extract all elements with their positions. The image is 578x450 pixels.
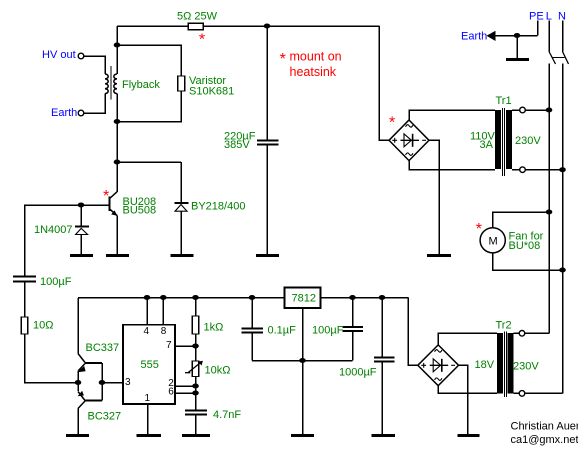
bridge1 marks [392,125,426,156]
wire PE drop [537,21,539,36]
wire fan bottom [493,253,563,270]
transformer Tr1 core [502,108,504,176]
svg-text:BU*08: BU*08 [509,240,541,252]
terminal Tr2 bottom [519,391,525,397]
wire fan top [493,212,549,228]
wire PE to earth arrow [494,35,538,37]
ground 1N4007 [70,254,93,257]
wire bridge2 minus to ground [459,365,468,435]
svg-text:18V: 18V [475,359,495,371]
svg-text:4: 4 [144,326,150,337]
wire BU208 emitter to ground [116,216,118,256]
wire varistor bottom branch [117,91,181,122]
wire Tr2 230V bottom lead [514,392,520,394]
node 100uF rail junction [349,295,356,300]
svg-text:*: * [199,32,205,49]
wire Tr1 bottom to N [525,169,563,171]
wire 555 pin 7 [175,345,196,347]
svg-text:PE: PE [529,11,544,23]
wire 555 pin 2 [175,385,196,387]
wire L lower [548,64,550,334]
wire Tr2 230V top lead [514,332,520,334]
bridge rectifier B1 diamond [389,120,429,161]
svg-text:100µF: 100µF [312,325,344,337]
svg-text:5Ω 25W: 5Ω 25W [177,11,218,23]
node fan N junction [559,268,566,273]
wire bridge1 minus to ground [429,140,439,255]
transformer flyback core [110,66,112,100]
node base junction [78,203,85,208]
svg-text:1N4007: 1N4007 [34,224,73,236]
node driver emitter junction [75,380,82,385]
wire flyback primary top lead [116,26,118,74]
resistor 5R 25W [188,23,203,29]
svg-text:10kΩ: 10kΩ [205,365,231,377]
wire BC337 collector [77,298,79,354]
svg-text:Earth: Earth [51,107,77,119]
node pin8 rail junction [160,295,167,300]
svg-text:230V: 230V [515,135,541,147]
ground BU208 emitter [106,254,129,257]
switch link bar [552,57,565,59]
terminal HV out [78,53,84,59]
transistor Q1 collector diagonal [110,192,117,199]
ground BY218 [171,254,194,257]
switch blade L [549,52,556,65]
capacitor 0.1uF [242,327,264,329]
svg-text:385V: 385V [224,139,250,151]
wire rail to bridge2 [408,298,418,366]
wire base node to 100uF [25,205,82,276]
earth arrow [487,31,496,41]
svg-text:0.1µF: 0.1µF [268,325,297,337]
svg-text:ca1@gmx.net: ca1@gmx.net [511,434,578,446]
wire 10R to emitter node [25,334,79,383]
svg-text:Tr2: Tr2 [496,320,512,332]
wire 555 pin 8 [162,298,164,325]
ground BC327 [66,434,89,437]
svg-text:M: M [489,236,498,248]
svg-text:8: 8 [161,326,167,337]
wire varistor top branch [117,45,181,76]
svg-text:*: * [476,221,482,238]
wire Tr2 top to L [525,332,550,334]
diode BY218/400 [180,162,182,203]
node 1k rail junction [192,295,199,300]
node PE junction [514,33,521,38]
terminal Tr2 top [519,331,525,337]
capacitor 4.7nF [185,409,207,411]
svg-text:1kΩ: 1kΩ [204,322,224,334]
resistor 10R [21,317,28,334]
capacitor 220uF 385V [257,139,279,141]
potentiometer 10k [192,361,199,377]
wire top supply rail [117,25,379,27]
wire N lower [562,64,564,394]
bridge rectifier B2 diamond [418,345,459,386]
svg-text:Flyback: Flyback [122,79,160,91]
node 220uF top junction [264,24,271,29]
svg-text:3: 3 [125,377,131,388]
ground bridge1 [427,254,451,257]
transistor Q1 BU208 base bar [109,197,111,212]
wire 0.1uF top [251,298,253,328]
ground 555 pin1 [137,434,162,437]
wire 555 pin 6 [175,392,196,394]
wire 1k to pot [195,334,197,361]
diode 1N4007 [80,205,82,227]
node Tr1 N junction [559,167,566,172]
wire Tr1 230V bottom lead [512,169,520,171]
svg-text:*: * [389,115,395,132]
wire Tr2 bottom to N [525,392,563,394]
svg-text:BC337: BC337 [86,342,120,354]
wire bridge2 AC bottom to Tr2 [438,386,497,394]
capacitor 1000uF [374,356,395,358]
svg-text:*: * [280,51,286,68]
wire bridge1 AC top to Tr1 [409,110,495,120]
svg-text:HV out: HV out [42,49,76,61]
wire flyback primary bottom lead [116,94,118,192]
transformer Tr2 18V winding [497,333,503,394]
svg-text:1: 1 [145,393,151,404]
node flyback top junction [114,43,121,48]
wire top rail to bridge1 [379,26,389,140]
ground 4.7nF [182,434,210,437]
svg-text:mount on: mount on [290,50,342,64]
supply rail right of 7812 [321,297,409,299]
ground 1000uF [372,434,396,437]
wire 100uF to 10R [24,283,26,317]
ground 7812 [291,434,314,437]
wire L upper [548,21,550,52]
transistor Q1 emitter arrow [111,210,117,215]
resistor 1k [192,316,199,334]
varistor S10K681 [178,76,185,91]
svg-text:Christian Auer: Christian Auer [511,421,578,433]
wire timing chain top [195,298,197,317]
svg-text:S10K681: S10K681 [189,86,234,98]
svg-text:BU508: BU508 [123,205,157,217]
svg-text:Tr1: Tr1 [496,95,512,107]
node pin6 junction [192,391,199,396]
svg-text:BY218/400: BY218/400 [191,201,245,213]
transformer Tr2 230V winding [508,333,514,394]
node pin7 junction [192,344,199,349]
ground PE [506,58,529,61]
terminal Earth flyback [78,110,84,116]
svg-text:1000µF: 1000µF [339,367,377,379]
node pin2 junction [192,384,199,389]
wire bridge1 AC bottom to Tr1 [409,161,495,170]
svg-text:heatsink: heatsink [290,65,337,79]
transformer Tr1 110V winding [495,110,501,169]
svg-text:6: 6 [168,387,174,398]
wire PE to ground [516,36,518,59]
svg-text:555: 555 [141,359,159,371]
node flyback bottom junction [114,119,121,124]
svg-text:100µF: 100µF [40,276,72,288]
node 0.1uF rail junction [249,295,256,300]
wire base link bar [101,363,103,401]
svg-text:N: N [558,11,566,23]
supply rail 12V [78,297,285,299]
svg-text:7812: 7812 [292,293,316,305]
bridge2 marks [421,350,455,381]
ground bridge2 [458,434,480,437]
node pin4 rail junction [144,295,151,300]
wire N upper [562,21,564,52]
wire 100uF out top [352,298,354,327]
svg-text:L: L [546,11,552,23]
wire to 555 pin 3 [102,382,123,384]
svg-text:4.7nF: 4.7nF [213,409,241,421]
transformer Tr2 core [504,332,506,398]
node collector junction [114,160,121,165]
svg-text:BC327: BC327 [88,411,122,423]
op-amp U1 555 timer box [123,325,175,404]
svg-text:Earth: Earth [461,31,487,43]
svg-text:230V: 230V [513,361,539,373]
transformer flyback primary winding [114,74,117,94]
regulator U2 7812 box [285,288,321,309]
node 1000uF rail junction [379,295,386,300]
switch blade N [563,52,569,65]
wire 1000uF top [381,298,383,357]
wire 555 pin 1 to ground [147,404,149,435]
wire collector to BY218 [117,161,181,163]
transistor Q2 BC337 [78,354,85,363]
wire ground bus [252,360,353,362]
wire pot to 4.7nF [195,377,197,410]
wire HV out lead [84,56,105,74]
transformer flyback secondary winding [105,74,108,94]
wire Tr1 top to L [525,109,549,111]
node 7812 gnd junction [299,358,306,363]
terminal Tr1 top [520,107,526,113]
terminal Tr1 bottom [520,167,526,173]
svg-text:7: 7 [166,340,172,351]
wire Earth lead flyback [84,94,105,113]
node base link junction [99,380,106,385]
motor fan M [480,228,505,253]
wire Tr1 230V top lead [512,109,520,111]
node fan L junction [546,210,553,215]
ground 220uF [256,254,279,257]
capacitor 100uF coupling [13,275,36,277]
wire 220uF top branch [266,26,268,140]
wire base node [81,204,109,206]
wire bridge2 AC top to Tr2 [438,333,497,345]
wire 7812 ground pin [302,308,304,435]
transistor Q1 emitter diagonal [110,209,117,216]
svg-text:3A: 3A [480,139,494,151]
capacitor 100uF output [343,326,364,328]
wire BC327 collector to ground [77,409,79,436]
transformer Tr1 230V winding [506,110,512,169]
transistor Q3 BC327 [77,383,79,392]
wire 555 pin 4 [146,298,148,325]
node Tr1 L junction [546,108,553,113]
svg-text:*: * [103,188,109,205]
svg-text:10Ω: 10Ω [33,320,53,332]
